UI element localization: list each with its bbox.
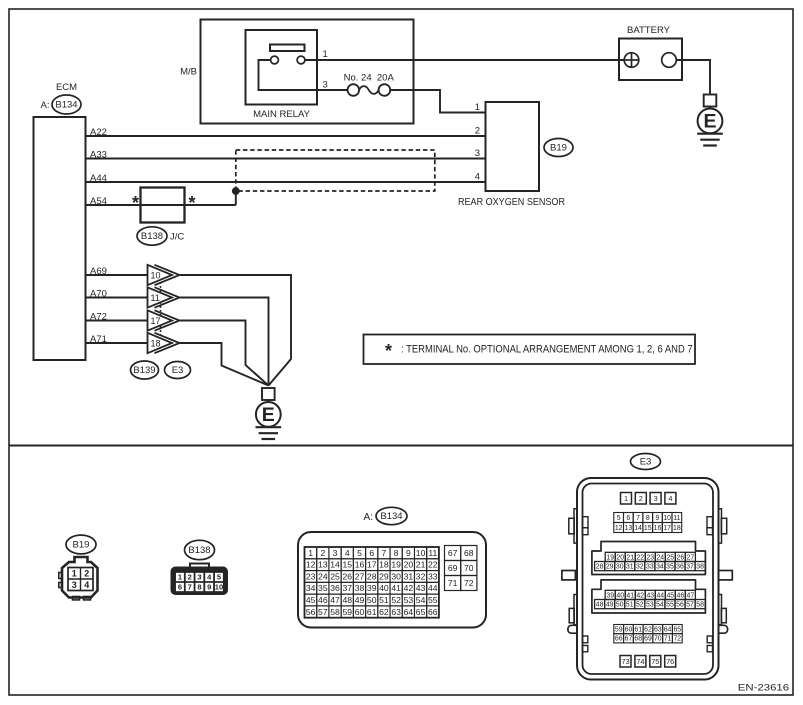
svg-text:64: 64 (404, 607, 414, 617)
svg-text:72: 72 (464, 578, 474, 588)
svg-text:19: 19 (606, 554, 614, 561)
svg-text:66: 66 (615, 636, 623, 643)
svg-text:6: 6 (626, 515, 630, 522)
svg-text:65: 65 (673, 627, 681, 634)
svg-text:60: 60 (355, 607, 365, 617)
svg-text:4: 4 (84, 580, 89, 590)
svg-text:33: 33 (428, 571, 438, 581)
dotted link line between splices (160, 270, 162, 348)
svg-text:62: 62 (644, 627, 652, 634)
svg-text:66: 66 (428, 607, 438, 617)
svg-text:4: 4 (475, 172, 480, 183)
svg-text:6: 6 (178, 583, 182, 592)
svg-text:9: 9 (406, 548, 411, 558)
svg-text:B19: B19 (73, 540, 90, 551)
wire splice 10 to ground (180, 275, 291, 386)
svg-text:15: 15 (644, 525, 652, 532)
svg-text:22: 22 (428, 560, 438, 570)
splice connector triangle 10 (148, 265, 173, 285)
svg-text:10: 10 (215, 583, 223, 592)
E3 housing right lower ridge (718, 595, 721, 625)
E3 housing left middle bar (562, 571, 576, 580)
svg-text:76: 76 (666, 657, 674, 666)
svg-text:63: 63 (654, 627, 662, 634)
svg-text:4: 4 (668, 494, 672, 503)
svg-text:20: 20 (404, 560, 414, 570)
svg-text:5: 5 (357, 548, 362, 558)
svg-text:8: 8 (394, 548, 399, 558)
svg-text:38: 38 (696, 564, 704, 571)
svg-text:45: 45 (306, 595, 316, 605)
svg-text:68: 68 (634, 636, 642, 643)
relay coil bar (270, 45, 305, 52)
svg-text:19: 19 (391, 560, 401, 570)
svg-text:31: 31 (404, 571, 414, 581)
svg-text:7: 7 (636, 515, 640, 522)
svg-text:8: 8 (646, 515, 650, 522)
svg-text:B138: B138 (188, 545, 210, 556)
E3 housing right upper tab (721, 518, 726, 534)
svg-text:56: 56 (306, 607, 316, 617)
svg-text:3: 3 (197, 573, 201, 582)
svg-text:ECM: ECM (56, 82, 77, 93)
svg-text:40: 40 (616, 592, 624, 599)
svg-text:A:: A: (41, 100, 50, 111)
E3 housing right upper ridge (718, 509, 721, 543)
svg-text:32: 32 (636, 564, 644, 571)
svg-text:63: 63 (391, 607, 401, 617)
svg-text:58: 58 (330, 607, 340, 617)
svg-text:6: 6 (369, 548, 374, 558)
svg-text:J/C: J/C (170, 232, 184, 243)
ground symbol E for sensor grounds (262, 388, 275, 400)
svg-text:E: E (703, 111, 716, 133)
svg-text:31: 31 (626, 564, 634, 571)
E3 housing right lower nub (715, 625, 728, 633)
svg-text:2: 2 (320, 548, 325, 558)
B19 housing left nub (59, 573, 62, 579)
svg-text:25: 25 (666, 554, 674, 561)
svg-text:BATTERY: BATTERY (627, 25, 671, 36)
ground symbol E at battery (704, 95, 717, 107)
svg-text:50: 50 (616, 602, 624, 609)
svg-text:29: 29 (379, 571, 389, 581)
svg-text:B138: B138 (141, 231, 163, 242)
connector oval B139 (131, 361, 159, 379)
svg-text:53: 53 (646, 602, 654, 609)
svg-text:62: 62 (379, 607, 389, 617)
svg-text:A70: A70 (90, 288, 107, 299)
svg-text:68: 68 (464, 548, 474, 558)
E3 housing left lower nub (568, 625, 581, 633)
wire ECM A71 to splice 18 (86, 342, 148, 344)
svg-text:43: 43 (646, 592, 654, 599)
svg-text:E: E (262, 404, 275, 426)
svg-text:69: 69 (644, 636, 652, 643)
svg-text:67: 67 (625, 636, 633, 643)
svg-text:3: 3 (654, 494, 658, 503)
svg-text:10: 10 (151, 270, 161, 280)
svg-text:*: * (188, 193, 195, 213)
wire ECM A72 to splice 17 (86, 320, 148, 322)
wire splice 18 to ground (180, 343, 269, 386)
wire ECM A69 to splice 10 (86, 274, 148, 276)
wire relay contact to pin 3 route (259, 60, 348, 90)
svg-text:41: 41 (626, 592, 634, 599)
svg-text:15: 15 (342, 560, 352, 570)
svg-text:E3: E3 (172, 365, 184, 376)
svg-text:44: 44 (428, 583, 438, 593)
connector oval B19 bottom view (66, 535, 96, 554)
shield junction dot (232, 187, 239, 194)
svg-text:M/B: M/B (180, 67, 197, 78)
svg-text:58: 58 (696, 602, 704, 609)
svg-text:57: 57 (318, 607, 328, 617)
rear oxygen sensor box B19 (486, 102, 540, 191)
connector oval B19 (544, 139, 573, 157)
svg-text:56: 56 (676, 602, 684, 609)
connector oval B138 with J/C label (137, 227, 167, 245)
svg-text:37: 37 (342, 583, 352, 593)
svg-text:2: 2 (188, 573, 192, 582)
E3 housing right lower tab (721, 608, 726, 622)
svg-text:48: 48 (596, 602, 604, 609)
svg-text:8: 8 (197, 583, 201, 592)
svg-text:21: 21 (416, 560, 426, 570)
svg-text:46: 46 (677, 592, 685, 599)
E3 inner notch right lower (707, 636, 712, 643)
svg-text:35: 35 (666, 564, 674, 571)
svg-text:57: 57 (686, 602, 694, 609)
svg-text:A54: A54 (90, 196, 107, 207)
svg-text:1: 1 (178, 573, 182, 582)
svg-text:51: 51 (626, 602, 634, 609)
svg-text:1: 1 (323, 49, 328, 60)
svg-text:45: 45 (666, 592, 674, 599)
svg-text:60: 60 (625, 627, 633, 634)
fuse No. 24 20A right terminal (379, 84, 391, 96)
E3 pin boxes 1-4 (621, 493, 632, 505)
E3 housing outer outline (577, 478, 719, 680)
svg-text:9: 9 (656, 515, 660, 522)
svg-text:B134: B134 (55, 100, 77, 111)
main relay box (246, 30, 318, 105)
svg-text:B134: B134 (380, 511, 402, 522)
svg-text:61: 61 (634, 627, 642, 634)
svg-text:1: 1 (475, 102, 480, 113)
svg-text:65: 65 (416, 607, 426, 617)
svg-text:37: 37 (686, 564, 694, 571)
svg-text:34: 34 (656, 564, 664, 571)
svg-text:17: 17 (151, 316, 161, 326)
E3 housing left lower tab (569, 608, 574, 622)
M/B fuse box (201, 20, 414, 124)
svg-text:38: 38 (355, 583, 365, 593)
svg-text:B139: B139 (133, 365, 155, 376)
svg-text:67: 67 (448, 548, 458, 558)
svg-text:11: 11 (673, 515, 680, 522)
svg-text:55: 55 (666, 602, 674, 609)
svg-text:26: 26 (342, 571, 352, 581)
E3 housing left lower ridge (574, 595, 577, 625)
svg-text:E3: E3 (640, 457, 652, 468)
svg-text:39: 39 (606, 592, 614, 599)
svg-text:49: 49 (606, 602, 614, 609)
svg-text:B19: B19 (550, 143, 567, 154)
svg-text:39: 39 (367, 583, 377, 593)
svg-text:3: 3 (333, 548, 338, 558)
svg-text:50: 50 (367, 595, 377, 605)
svg-text:42: 42 (636, 592, 644, 599)
svg-text:28: 28 (596, 564, 604, 571)
svg-text:17: 17 (663, 525, 671, 532)
svg-text:25: 25 (330, 571, 340, 581)
svg-text:14: 14 (634, 525, 642, 532)
svg-text:5: 5 (617, 515, 621, 522)
svg-text:54: 54 (656, 602, 664, 609)
battery positive terminal (624, 53, 639, 68)
svg-text:1: 1 (624, 494, 628, 503)
splice connector triangle 17 (148, 310, 173, 330)
svg-text:30: 30 (391, 571, 401, 581)
wire fuse to B19 pin 1 (390, 90, 485, 113)
B19 connector housing (62, 557, 98, 598)
svg-text:48: 48 (342, 595, 352, 605)
B138 pin cells (175, 572, 184, 581)
svg-text:A44: A44 (90, 173, 107, 184)
svg-text:3: 3 (323, 80, 328, 91)
svg-text:3: 3 (475, 148, 480, 159)
svg-text:A71: A71 (90, 334, 107, 345)
svg-text:7: 7 (382, 548, 387, 558)
B19 pin grid 2x2 (68, 568, 93, 591)
svg-text:28: 28 (367, 571, 377, 581)
svg-text:24: 24 (656, 554, 664, 561)
fuse element squiggle (359, 86, 379, 94)
E3 pin panel 39-58 (592, 580, 706, 613)
svg-text:14: 14 (330, 560, 340, 570)
svg-text:1: 1 (308, 548, 313, 558)
svg-text:34: 34 (306, 583, 316, 593)
svg-text:22: 22 (636, 554, 644, 561)
svg-text:1: 1 (72, 569, 77, 579)
svg-text:9: 9 (207, 583, 211, 592)
svg-text:53: 53 (404, 595, 414, 605)
svg-text:12: 12 (615, 525, 623, 532)
svg-text:52: 52 (636, 602, 644, 609)
svg-text:A69: A69 (90, 266, 107, 277)
svg-text:55: 55 (428, 595, 438, 605)
svg-text:64: 64 (664, 627, 672, 634)
svg-text:27: 27 (687, 554, 695, 561)
svg-text:A22: A22 (90, 127, 107, 138)
svg-text:69: 69 (448, 563, 458, 573)
svg-text:73: 73 (621, 657, 629, 666)
svg-text:49: 49 (355, 595, 365, 605)
svg-text:47: 47 (330, 595, 340, 605)
svg-text:: TERMINAL No. OPTIONAL ARRANG: : TERMINAL No. OPTIONAL ARRANGEMENT AMON… (401, 344, 693, 356)
svg-text:51: 51 (379, 595, 389, 605)
wire splice 17 to ground (180, 321, 269, 386)
wire ECM A22 to B19 pin 2 (86, 135, 486, 137)
svg-text:24: 24 (318, 571, 328, 581)
E3 inner notch left upper (583, 517, 589, 528)
svg-text:2: 2 (84, 569, 89, 579)
E3 housing left upper tab (569, 518, 574, 534)
relay contact right (297, 56, 305, 64)
connector oval E3 bottom view (631, 454, 661, 470)
battery negative terminal (662, 53, 677, 68)
battery box (619, 39, 682, 81)
svg-text:3: 3 (72, 580, 77, 590)
svg-text:REAR OXYGEN SENSOR: REAR OXYGEN SENSOR (458, 197, 565, 208)
svg-text:10: 10 (663, 515, 671, 522)
svg-text:20: 20 (616, 554, 624, 561)
svg-text:71: 71 (448, 578, 458, 588)
svg-text:61: 61 (367, 607, 377, 617)
svg-text:30: 30 (616, 564, 624, 571)
svg-text:59: 59 (615, 627, 623, 634)
svg-text:42: 42 (404, 583, 414, 593)
svg-text:11: 11 (428, 548, 437, 558)
svg-text:EN-23616: EN-23616 (738, 682, 789, 693)
svg-text:18: 18 (379, 560, 389, 570)
E3 housing right middle bar (718, 571, 732, 580)
svg-text:70: 70 (654, 636, 662, 643)
E3 housing inner outline (583, 484, 714, 675)
svg-text:33: 33 (646, 564, 654, 571)
svg-text:MAIN RELAY: MAIN RELAY (253, 109, 311, 120)
E3 inner notch left lower (583, 636, 588, 643)
B134 pin grid 66 (305, 547, 317, 559)
svg-text:46: 46 (318, 595, 328, 605)
svg-text:10: 10 (416, 548, 426, 558)
svg-text:16: 16 (654, 525, 662, 532)
relay pin 1 wire to battery (305, 59, 625, 61)
wire ECM A70 to splice 11 (86, 297, 148, 299)
svg-text:2: 2 (475, 126, 480, 137)
splice connector triangle 11 (148, 287, 173, 307)
svg-text:5: 5 (217, 573, 221, 582)
svg-text:23: 23 (306, 571, 316, 581)
svg-text:11: 11 (151, 293, 160, 303)
svg-text:36: 36 (676, 564, 684, 571)
svg-text:71: 71 (664, 636, 672, 643)
E3 housing left upper ridge (574, 509, 577, 543)
svg-text:36: 36 (330, 583, 340, 593)
wire battery to ground (676, 60, 710, 95)
note box terminal arrangement (364, 335, 696, 365)
svg-text:18: 18 (151, 338, 161, 348)
svg-text:7: 7 (188, 583, 192, 592)
svg-text:13: 13 (625, 525, 633, 532)
svg-text:27: 27 (355, 571, 365, 581)
svg-text:41: 41 (391, 583, 401, 593)
B134 pin grid 67-72 (445, 546, 461, 561)
svg-text:52: 52 (391, 595, 401, 605)
svg-text:2: 2 (639, 494, 643, 503)
svg-text:43: 43 (416, 583, 426, 593)
shield dashed box around A33 A44 wires (236, 150, 435, 191)
wire ECM A44 to B19 pin 4 (86, 181, 486, 183)
wire splice 11 to ground (180, 298, 269, 386)
svg-text:17: 17 (367, 560, 377, 570)
svg-text:A33: A33 (90, 149, 107, 160)
svg-text:21: 21 (626, 554, 634, 561)
svg-text:No. 24 20A: No. 24 20A (344, 73, 395, 84)
B134 connector outline (298, 532, 486, 628)
svg-text:29: 29 (606, 564, 614, 571)
svg-text:59: 59 (342, 607, 352, 617)
svg-text:47: 47 (687, 592, 695, 599)
B19 housing bottom nubs (73, 597, 80, 600)
relay contact left (271, 56, 279, 64)
svg-text:A:: A: (364, 512, 373, 523)
connector oval E3 (165, 362, 191, 379)
B138 connector housing (190, 564, 209, 571)
svg-text:12: 12 (306, 560, 316, 570)
svg-text:18: 18 (673, 525, 681, 532)
section divider line (9, 445, 793, 447)
splice connector triangle 18 (148, 333, 173, 353)
E3 pin grid 59-72 (614, 625, 624, 634)
svg-text:44: 44 (656, 592, 664, 599)
svg-text:26: 26 (677, 554, 685, 561)
wire ECM A54 to junction via J/C (86, 204, 236, 206)
svg-text:A72: A72 (90, 311, 107, 322)
svg-text:16: 16 (355, 560, 365, 570)
E3 pin boxes 73-76 (620, 656, 631, 668)
svg-text:*: * (132, 193, 139, 213)
junction connector J/C box B138 (141, 188, 185, 223)
svg-text:23: 23 (646, 554, 654, 561)
ECM connector box B134 (34, 117, 86, 360)
svg-text:*: * (385, 341, 392, 361)
E3 inner notch right upper (707, 517, 713, 528)
connector oval B138 bottom view (185, 540, 215, 559)
E3 pin grid 5-18 (614, 513, 624, 523)
wire A54 stub to shield junction (235, 191, 237, 205)
svg-text:74: 74 (636, 657, 644, 666)
svg-text:75: 75 (651, 657, 659, 666)
svg-text:4: 4 (345, 548, 350, 558)
wire ECM A33 to B19 pin 3 (86, 158, 486, 160)
svg-text:32: 32 (416, 571, 426, 581)
svg-text:13: 13 (318, 560, 328, 570)
svg-text:35: 35 (318, 583, 328, 593)
svg-text:40: 40 (379, 583, 389, 593)
svg-text:54: 54 (416, 595, 426, 605)
svg-text:72: 72 (673, 636, 681, 643)
svg-text:70: 70 (464, 563, 474, 573)
fuse No. 24 20A left terminal (348, 84, 360, 96)
E3 pin panel 19-38 (592, 542, 706, 575)
